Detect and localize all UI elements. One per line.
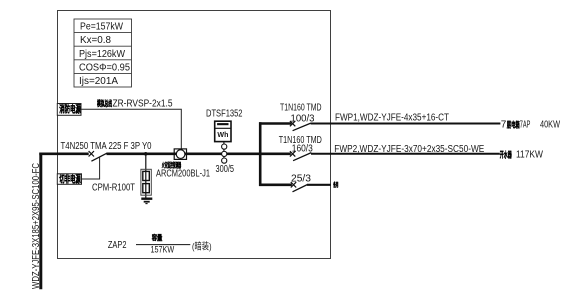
wire: branch 1 stub	[259, 122, 291, 125]
svg-text:ZAP2: ZAP2	[108, 240, 127, 251]
main breaker T4N250 blade	[91, 153, 107, 161]
svg-text:ZR-RVSP-2x1.5: ZR-RVSP-2x1.5	[113, 98, 173, 109]
current transformers 300/5 (3 circles)	[222, 144, 227, 163]
breaker T1N160 TMD 160/3 contact (X)	[290, 151, 295, 156]
surge protector CPM-R100T	[141, 169, 151, 195]
load parameter table	[74, 19, 132, 87]
svg-text:Pjs=126kW: Pjs=126kW	[79, 49, 126, 60]
svg-text:切非电源: 切非电源	[59, 173, 81, 185]
wire: feeder FWP2	[311, 153, 500, 155]
svg-text:FWP2,WDZ-YJFE-3x70+2x35-SC50-W: FWP2,WDZ-YJFE-3x70+2x35-SC50-WE	[334, 144, 484, 155]
svg-text:157KW: 157KW	[151, 244, 175, 255]
svg-text:COSΦ=0.95: COSΦ=0.95	[79, 62, 130, 73]
svg-text:备用: 备用	[333, 180, 339, 189]
svg-text:T1N160 TMD: T1N160 TMD	[280, 102, 322, 113]
svg-text:消防电源: 消防电源	[59, 103, 81, 115]
svg-text:T4N250 TMA 225 F 3P Y0: T4N250 TMA 225 F 3P Y0	[61, 141, 152, 152]
backup source label box (lower, on border)	[57, 174, 81, 185]
source label box (top, on border)	[57, 104, 81, 116]
svg-text:7层电箱7AP: 7层电箱7AP	[501, 120, 531, 131]
svg-text:40KW: 40KW	[540, 120, 560, 131]
svg-text:25/3: 25/3	[291, 174, 311, 185]
wire: spare feeder	[307, 184, 331, 186]
panel enclosure box ZAP2	[58, 11, 331, 259]
incoming riser wire (thick vertical feeder)	[39, 153, 42, 290]
svg-text:Pe=157kW: Pe=157kW	[80, 22, 123, 33]
svg-text:Wh: Wh	[217, 130, 228, 139]
svg-text:FWP1,WDZ-YJFE-4x35+16-CT: FWP1,WDZ-YJFE-4x35+16-CT	[335, 113, 449, 124]
rating fraction line	[136, 244, 190, 246]
wire: trip control from box to main breaker blade	[82, 157, 100, 179]
svg-text:WDZ-YJFE-3X185+2X95-SC100-FC: WDZ-YJFE-3X185+2X95-SC100-FC	[30, 163, 42, 289]
node: CPM tap junction	[144, 152, 148, 156]
svg-text:容量: 容量	[151, 234, 162, 243]
wire: monitoring bus from label box to ARCM detector	[81, 109, 181, 149]
breaker 25/3 blade	[293, 185, 308, 192]
wire: branch vertical bus	[259, 122, 262, 186]
breaker T1N160 TMD 160/3 blade	[293, 153, 311, 161]
svg-text:300/5: 300/5	[216, 164, 235, 175]
ground	[141, 199, 152, 204]
svg-text:117KW: 117KW	[516, 150, 543, 161]
svg-text:Kx=0.8: Kx=0.8	[80, 35, 111, 46]
wire: main bus left segment	[39, 153, 88, 156]
svg-text:开水器: 开水器	[500, 149, 512, 160]
wire: branch 3 stub	[259, 184, 292, 187]
svg-text:DTSF1352: DTSF1352	[206, 108, 243, 119]
wire: main bus middle segment	[107, 153, 291, 156]
kWh meter DTSF1352	[215, 121, 231, 141]
breaker T1N160 TMD 100/3 blade	[293, 123, 311, 131]
breaker T1N160 TMD 100/3 contact (X)	[290, 121, 295, 126]
wire: CPM drop	[145, 154, 147, 198]
breaker 25/3 contact (X)	[291, 182, 296, 187]
svg-text:(暗装): (暗装)	[192, 241, 212, 253]
svg-text:CPM-R100T: CPM-R100T	[92, 183, 135, 194]
svg-text:160/3: 160/3	[292, 143, 313, 154]
residual current detector ARCM200BL-J1 (circle in square on bus)	[174, 149, 186, 160]
wire: meter to CTs	[223, 142, 225, 163]
svg-text:ARCM200BL-J1: ARCM200BL-J1	[156, 168, 210, 179]
svg-text:Ijs=201A: Ijs=201A	[79, 76, 118, 87]
main breaker T4N250 fixed contact (X)	[89, 151, 94, 156]
svg-text:模拟总线: 模拟总线	[97, 98, 112, 108]
wire: feeder FWP1	[311, 123, 501, 125]
